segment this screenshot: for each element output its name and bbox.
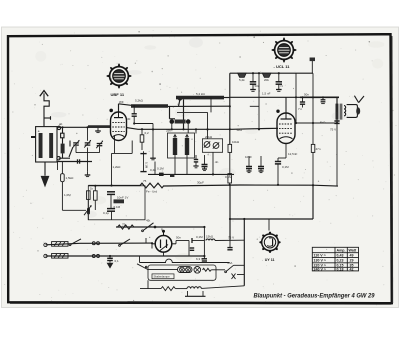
svg-text:15kΩ: 15kΩ xyxy=(206,235,214,239)
svg-text:0,2: 0,2 xyxy=(145,131,150,135)
svg-text:30µF: 30µF xyxy=(197,181,204,185)
svg-text:12,5nF: 12,5nF xyxy=(288,152,298,156)
svg-text:5kΩ: 5kΩ xyxy=(237,128,243,132)
svg-text:25k: 25k xyxy=(166,129,171,133)
svg-text:240 V ≈: 240 V ≈ xyxy=(314,267,326,271)
svg-text:5,2 kΩ: 5,2 kΩ xyxy=(196,92,206,96)
svg-text:75 V: 75 V xyxy=(330,128,336,132)
svg-text:130 V ≈: 130 V ≈ xyxy=(314,259,326,263)
svg-text:75: 75 xyxy=(122,223,126,227)
svg-text:0,1: 0,1 xyxy=(115,259,120,263)
svg-text:4n: 4n xyxy=(215,160,219,164)
svg-text:0,1M: 0,1M xyxy=(282,165,289,169)
svg-text:30: 30 xyxy=(127,117,131,121)
svg-text:0,48: 0,48 xyxy=(150,168,156,172)
svg-text:NSA: NSA xyxy=(227,261,233,265)
svg-text:75: 75 xyxy=(143,179,147,183)
svg-text:50n: 50n xyxy=(255,84,260,88)
svg-text:5,2k: 5,2k xyxy=(239,78,245,82)
svg-text:10kΩ: 10kΩ xyxy=(232,140,240,144)
svg-text:UBF 11: UBF 11 xyxy=(111,92,125,97)
svg-text:0,23: 0,23 xyxy=(337,259,344,263)
svg-text:0,43: 0,43 xyxy=(337,254,344,258)
svg-text:Skalenlampe: Skalenlampe xyxy=(154,275,171,279)
svg-text:49: 49 xyxy=(350,254,354,258)
svg-text:Fe - Urd: Fe - Urd xyxy=(146,190,157,194)
svg-text:5,2kΩ: 5,2kΩ xyxy=(135,99,144,103)
svg-text:UY 11: UY 11 xyxy=(265,258,275,262)
svg-text:29: 29 xyxy=(350,259,354,263)
svg-text:7 n: 7 n xyxy=(298,107,303,111)
svg-text:- UCL 11: - UCL 11 xyxy=(274,64,291,69)
svg-text:0,1µ: 0,1µ xyxy=(103,211,109,215)
svg-text:0,1M: 0,1M xyxy=(114,205,121,209)
svg-text:110 V ≈: 110 V ≈ xyxy=(314,254,326,258)
svg-text:47n: 47n xyxy=(316,147,321,151)
svg-text:Watt: Watt xyxy=(349,249,357,253)
svg-text:50n: 50n xyxy=(304,93,309,97)
svg-text:0,1M: 0,1M xyxy=(157,167,164,171)
svg-text:10nF 1V: 10nF 1V xyxy=(117,196,128,200)
svg-text:1,0M: 1,0M xyxy=(64,193,71,197)
svg-text:0,18: 0,18 xyxy=(337,267,344,271)
svg-text:1,5 nF: 1,5 nF xyxy=(262,92,271,96)
svg-text:Amp.: Amp. xyxy=(337,249,346,253)
svg-text:10µF: 10µF xyxy=(245,155,252,159)
svg-text:1,5kΩ: 1,5kΩ xyxy=(66,176,75,180)
svg-text:B: B xyxy=(161,228,163,232)
svg-text:20kΩ: 20kΩ xyxy=(205,135,213,139)
svg-text:75 V: 75 V xyxy=(228,236,234,240)
svg-text:45t: 45t xyxy=(146,219,150,223)
svg-text:ab: ab xyxy=(59,122,63,126)
svg-text:5kΩ: 5kΩ xyxy=(320,121,326,125)
svg-text:20k: 20k xyxy=(264,78,269,82)
svg-text:0,1M: 0,1M xyxy=(225,175,232,179)
svg-text:50n: 50n xyxy=(176,236,181,240)
svg-text:42: 42 xyxy=(350,267,354,271)
svg-text:0,1M: 0,1M xyxy=(196,235,203,239)
svg-text:WF: WF xyxy=(119,100,124,104)
svg-text:6,3 V: 6,3 V xyxy=(196,257,203,261)
svg-text:N: N xyxy=(281,84,283,88)
svg-text:1,2kΩ: 1,2kΩ xyxy=(113,165,122,169)
svg-text:Blaupunkt - Geradeaus-Empfänge: Blaupunkt - Geradeaus-Empfänger 4 GW 29 xyxy=(254,292,375,299)
svg-text:0,1M: 0,1M xyxy=(145,162,149,169)
